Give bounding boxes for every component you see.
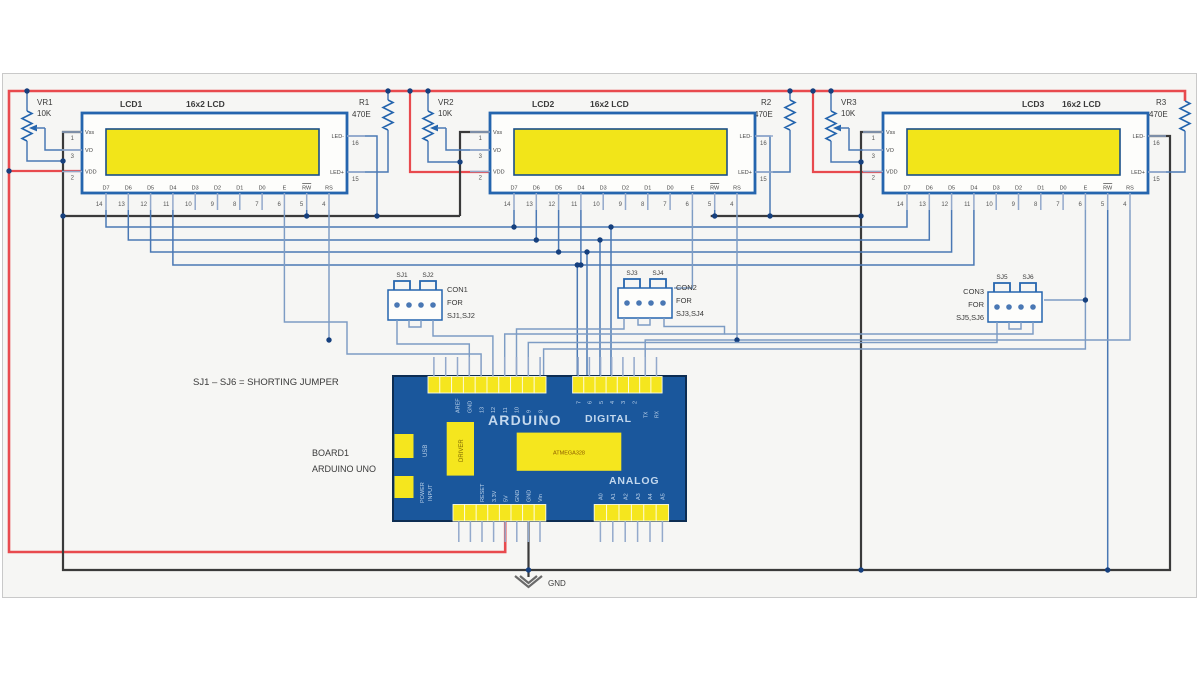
svg-text:D0: D0 [259, 186, 266, 192]
shorting jumper SJ5 [994, 283, 1010, 292]
svg-text:SJ3,SJ4: SJ3,SJ4 [676, 309, 704, 318]
svg-text:D7: D7 [102, 186, 109, 192]
junction LCD2 D4 [580, 210, 582, 265]
shorting jumper SJ1 [394, 281, 410, 290]
junction VR1 gnd [60, 158, 65, 163]
svg-text:470E: 470E [1149, 110, 1168, 119]
svg-text:SJ1: SJ1 [396, 272, 408, 279]
svg-text:11: 11 [964, 202, 971, 208]
svg-text:VR3: VR3 [841, 98, 857, 107]
svg-text:3.3V: 3.3V [492, 490, 498, 502]
svg-text:10K: 10K [37, 109, 52, 118]
svg-text:LCD2: LCD2 [532, 99, 554, 109]
wire CON3 pin1 to Arduino [528, 322, 997, 377]
junction LCD2 D7 [513, 210, 515, 227]
svg-text:SJ2: SJ2 [422, 272, 434, 279]
svg-text:RX: RX [655, 410, 661, 418]
wire bus D4 drop to Arduino digital pin [576, 265, 578, 377]
wire CON3 pin4 to bus [725, 322, 1034, 334]
potentiometer VR2 10K [427, 91, 429, 111]
wire GND main loop (LCD1 Vss drop, bottom bus, right riser to LCD3 LED-) [63, 132, 1170, 570]
svg-text:Vss: Vss [493, 130, 502, 136]
svg-text:12: 12 [548, 202, 555, 208]
svg-text:14: 14 [504, 202, 511, 208]
svg-text:16: 16 [352, 141, 359, 147]
CON1 pin 1 [394, 302, 400, 308]
svg-text:TX: TX [643, 411, 649, 418]
svg-text:9: 9 [527, 410, 533, 413]
potentiometer VR1 10K [26, 91, 28, 111]
svg-text:CON2: CON2 [676, 283, 697, 292]
svg-text:LED-: LED- [1132, 134, 1145, 140]
connector CON3 [988, 292, 1042, 322]
svg-text:Vin: Vin [538, 494, 544, 502]
header analog (bottom-right) [594, 505, 606, 522]
junction GND bus LCD3 riser [858, 567, 863, 572]
svg-text:VDD: VDD [886, 170, 898, 176]
svg-text:LED-: LED- [739, 134, 752, 140]
svg-text:13: 13 [919, 202, 926, 208]
svg-text:Vss: Vss [886, 130, 895, 136]
svg-text:R3: R3 [1156, 98, 1167, 107]
LCD module LCD3 16x2 [883, 113, 1148, 193]
svg-text:7: 7 [576, 401, 582, 404]
header top-right (digital 7-0) [573, 377, 584, 394]
svg-text:14: 14 [96, 202, 103, 208]
svg-text:FOR: FOR [447, 298, 463, 307]
wire CON2 pin1 to Arduino [517, 318, 625, 377]
shorting jumper SJ4 [650, 279, 666, 288]
svg-text:D4: D4 [577, 186, 584, 192]
svg-text:D1: D1 [236, 186, 243, 192]
svg-text:ARDUINO: ARDUINO [488, 412, 562, 428]
svg-text:D0: D0 [1060, 186, 1067, 192]
svg-text:E: E [691, 186, 695, 192]
svg-text:INPUT: INPUT [428, 484, 434, 501]
LCD3 right pins LED- LED+ [1148, 135, 1166, 137]
svg-text:2: 2 [632, 401, 638, 404]
board U1 Arduino Uno [393, 376, 686, 521]
LCD3 bottom pins D7-D0 E RW RS [906, 193, 908, 210]
wire GND riser LCD2 Vss [460, 132, 490, 216]
svg-text:470E: 470E [352, 110, 371, 119]
potentiometer VR3 10K [830, 91, 832, 111]
wire LCD1 E to Arduino [284, 210, 481, 377]
svg-text:8: 8 [538, 410, 544, 413]
svg-text:10: 10 [185, 202, 192, 208]
LCD1 left pins Vss VO VDD [62, 131, 82, 133]
svg-text:3: 3 [621, 401, 627, 404]
wire LCD2 RS drop [736, 210, 738, 340]
svg-text:SJ3: SJ3 [626, 270, 638, 277]
wire data bus D5 (LCD1-LCD2-LCD3) [151, 210, 952, 252]
wire R1 to LCD1 LED+ [346, 130, 388, 172]
svg-text:GND: GND [468, 401, 474, 413]
svg-text:10K: 10K [438, 109, 453, 118]
svg-text:RW: RW [710, 186, 720, 192]
junction LCD2 D6 [535, 210, 537, 240]
svg-text:A0: A0 [599, 493, 605, 500]
svg-text:LCD3: LCD3 [1022, 99, 1044, 109]
svg-text:A4: A4 [648, 493, 654, 500]
LCD module LCD2 16x2 [490, 113, 755, 193]
svg-text:12: 12 [941, 202, 948, 208]
wire +5V main (top rail, left drop, bottom run to Arduino 5V) [9, 91, 1185, 552]
svg-text:VDD: VDD [85, 170, 97, 176]
svg-text:D6: D6 [926, 186, 933, 192]
header top-left (AREF GND 13-8) [428, 377, 440, 394]
svg-text:6: 6 [588, 401, 594, 404]
svg-text:VR2: VR2 [438, 98, 454, 107]
svg-text:GND: GND [527, 490, 533, 502]
svg-text:ANALOG: ANALOG [609, 475, 659, 487]
svg-text:VO: VO [85, 148, 94, 154]
wire R3 to LCD3 LED+ [1145, 131, 1185, 172]
shorting jumper SJ3 [624, 279, 640, 288]
junction VR1 top [24, 88, 29, 93]
junction +5V LCD1 VDD [6, 168, 11, 173]
svg-text:4: 4 [610, 401, 616, 404]
power input connector [395, 476, 414, 498]
svg-text:E: E [283, 186, 287, 192]
svg-text:D1: D1 [644, 186, 651, 192]
wire LCD3 RW to GND bus [1107, 210, 1109, 570]
svg-text:SJ6: SJ6 [1022, 274, 1034, 281]
wire VR2 wiper to LCD2 VO [446, 128, 490, 150]
svg-text:CON1: CON1 [447, 285, 468, 294]
svg-text:LED-: LED- [331, 134, 344, 140]
wire GND riser LCD3 Vss [861, 132, 883, 570]
svg-text:BOARD1: BOARD1 [312, 448, 349, 458]
junction LED1- gnd [374, 213, 379, 218]
svg-text:D2: D2 [214, 186, 221, 192]
junction VR2 top [425, 88, 430, 93]
wire GND drop from Arduino GND pin [527, 521, 529, 577]
svg-text:SJ4: SJ4 [652, 270, 664, 277]
wire LCD1 RS drop [328, 210, 330, 340]
svg-text:15: 15 [352, 177, 359, 183]
pin stubs [434, 357, 663, 542]
LCD1 bottom pins D7-D0 E RW RS [105, 193, 107, 210]
svg-text:D3: D3 [192, 186, 199, 192]
svg-text:11: 11 [503, 407, 509, 413]
LCD3 screen [907, 129, 1120, 175]
svg-text:D2: D2 [622, 186, 629, 192]
connector CON2 [618, 288, 672, 318]
svg-text:ARDUINO UNO: ARDUINO UNO [312, 464, 376, 474]
wire LCD1 LED- to GND bus [346, 136, 377, 216]
svg-text:D4: D4 [169, 186, 176, 192]
shorting jumper SJ2 [420, 281, 436, 290]
CON1 pin 3 [418, 302, 424, 308]
svg-text:SJ1,SJ2: SJ1,SJ2 [447, 311, 475, 320]
wire GND bus under LCD1 [63, 215, 460, 217]
CON2 pin 1 [624, 300, 630, 306]
CON1 pin 2 [406, 302, 412, 308]
svg-text:11: 11 [163, 202, 170, 208]
wire LCD2 LED- to GND [752, 136, 770, 216]
svg-text:10: 10 [515, 407, 521, 413]
wire CON1 pin1 to Arduino [397, 320, 469, 377]
svg-text:POWER: POWER [420, 482, 426, 503]
svg-text:LED+: LED+ [738, 170, 752, 176]
wire CON2 pins2-3 bridge [638, 318, 650, 325]
svg-text:16: 16 [1153, 141, 1160, 147]
wire +5V branch to LCD2 VDD [410, 91, 490, 172]
CON2 pin 2 [636, 300, 642, 306]
LCD1 right pins LED- LED+ [347, 135, 365, 137]
svg-text:10: 10 [593, 202, 600, 208]
voltage regulator block [447, 422, 474, 476]
svg-text:A1: A1 [611, 493, 617, 500]
svg-text:DRIVER: DRIVER [459, 439, 465, 462]
wire R2 to LCD2 LED+ [752, 130, 790, 172]
wire data bus D6 (LCD1-LCD2-LCD3) [128, 210, 929, 240]
svg-text:VO: VO [886, 148, 895, 154]
wire VR2 bottom to GND [428, 141, 460, 162]
wire bus D6 drop to Arduino digital pin [599, 240, 601, 377]
svg-text:RS: RS [325, 186, 333, 192]
svg-text:13: 13 [479, 407, 485, 413]
LCD3 left pins Vss VO VDD [863, 131, 883, 133]
wire LCD2 E to CON2 [674, 210, 692, 288]
svg-text:10K: 10K [841, 109, 856, 118]
svg-text:16x2 LCD: 16x2 LCD [186, 99, 225, 109]
svg-text:VDD: VDD [493, 170, 505, 176]
CON2 pin 4 [660, 300, 666, 306]
resistor R2 470E [789, 91, 791, 100]
wire CON3 pins2-3 bridge [1009, 322, 1021, 329]
LCD2 screen [514, 129, 727, 175]
CON2 pin 3 [648, 300, 654, 306]
junction R2 top [787, 88, 792, 93]
svg-text:15: 15 [1153, 177, 1160, 183]
junction GND bus left [60, 213, 65, 218]
svg-text:VO: VO [493, 148, 502, 154]
svg-text:12: 12 [491, 407, 497, 413]
svg-text:A3: A3 [636, 493, 642, 500]
junction LED2- gnd [767, 213, 772, 218]
LCD2 right pins LED- LED+ [755, 135, 773, 137]
LCD module LCD1 16x2 [82, 113, 347, 193]
svg-text:10: 10 [986, 202, 993, 208]
wire GND segment LCD2/LCD3 [711, 215, 861, 217]
CON3 pin 3 [1018, 304, 1024, 310]
svg-text:D7: D7 [510, 186, 517, 192]
wire VR3 bottom to GND [831, 141, 861, 162]
wire bus D5 drop to Arduino digital pin [586, 252, 588, 377]
svg-text:SJ1 – SJ6 = SHORTING JUMPER: SJ1 – SJ6 = SHORTING JUMPER [193, 377, 339, 388]
svg-text:D6: D6 [125, 186, 132, 192]
junction VR2 gnd [457, 159, 462, 164]
svg-text:R1: R1 [359, 98, 370, 107]
svg-text:D0: D0 [667, 186, 674, 192]
junction +5V LCD2 drop [407, 88, 412, 93]
LCD1 screen [106, 129, 319, 175]
svg-text:FOR: FOR [676, 296, 692, 305]
CON3 pin 1 [994, 304, 1000, 310]
resistor R3 470E [1180, 101, 1190, 131]
svg-text:A5: A5 [661, 493, 667, 500]
svg-text:DIGITAL: DIGITAL [585, 413, 632, 425]
svg-text:16x2 LCD: 16x2 LCD [590, 99, 629, 109]
svg-text:SJ5: SJ5 [996, 274, 1008, 281]
svg-text:16: 16 [760, 141, 767, 147]
svg-text:CON3: CON3 [963, 287, 984, 296]
resistor R1 470E [387, 91, 389, 100]
svg-text:E: E [1084, 186, 1088, 192]
CON3 pin 4 [1030, 304, 1036, 310]
svg-text:GND: GND [515, 490, 521, 502]
svg-text:5V: 5V [503, 495, 509, 502]
svg-text:LCD1: LCD1 [120, 99, 142, 109]
svg-text:D2: D2 [1015, 186, 1022, 192]
svg-text:SJ5,SJ6: SJ5,SJ6 [956, 313, 984, 322]
svg-text:13: 13 [526, 202, 533, 208]
svg-text:470E: 470E [754, 110, 773, 119]
svg-text:RW: RW [302, 186, 312, 192]
svg-text:D5: D5 [147, 186, 154, 192]
svg-text:D6: D6 [533, 186, 540, 192]
wire CON1 pin4 to Arduino [433, 320, 493, 377]
ground symbol [515, 576, 542, 587]
svg-text:A2: A2 [623, 493, 629, 500]
svg-text:ATMEGA328: ATMEGA328 [553, 451, 585, 457]
junction VR3 gnd [858, 159, 863, 164]
IC ATMEGA328 [517, 433, 622, 471]
wire VR1 wiper to LCD1 VO [45, 128, 82, 150]
wire CON1 pins2-3 bridge [409, 320, 421, 327]
junction R1 top [385, 88, 390, 93]
junction GND seg LCD3 [858, 213, 863, 218]
svg-text:D3: D3 [600, 186, 607, 192]
wire LCD3 E to Arduino [544, 210, 1086, 377]
CON3 pin 2 [1006, 304, 1012, 310]
svg-text:14: 14 [897, 202, 904, 208]
svg-text:RESET: RESET [480, 483, 486, 502]
svg-text:LED+: LED+ [330, 170, 344, 176]
svg-text:15: 15 [760, 177, 767, 183]
svg-text:16x2 LCD: 16x2 LCD [1062, 99, 1101, 109]
svg-text:AREF: AREF [456, 398, 462, 413]
svg-text:D4: D4 [970, 186, 977, 192]
junction VR3 top [828, 88, 833, 93]
svg-text:Vss: Vss [85, 130, 94, 136]
svg-text:LED+: LED+ [1131, 170, 1145, 176]
shorting jumper SJ6 [1020, 283, 1036, 292]
svg-text:D7: D7 [903, 186, 910, 192]
wire VR1 bottom to GND [27, 141, 63, 161]
USB connector [395, 434, 414, 458]
svg-text:5: 5 [599, 401, 605, 404]
svg-text:12: 12 [140, 202, 147, 208]
wire LCD1 RW to GND bus [306, 210, 308, 216]
wire VR3 wiper to LCD3 VO [849, 128, 883, 150]
svg-text:VR1: VR1 [37, 98, 53, 107]
svg-text:D3: D3 [993, 186, 1000, 192]
header power (bottom-left) [453, 505, 465, 522]
schematic sheet frame [3, 74, 1197, 598]
CON1 pin 4 [430, 302, 436, 308]
wire data bus D7 (LCD1-LCD2-LCD3) [106, 210, 907, 227]
junction LCD2 D5 [558, 210, 560, 252]
svg-text:GND: GND [548, 579, 566, 588]
svg-text:RS: RS [1126, 186, 1134, 192]
svg-text:13: 13 [118, 202, 125, 208]
wire +5V branch to LCD3 VDD [813, 91, 883, 172]
wire LCD2 RW to GND bus [714, 210, 716, 216]
svg-text:D5: D5 [948, 186, 955, 192]
wire data bus D4 (LCD1-LCD2-LCD3) [173, 210, 974, 265]
LCD2 bottom pins D7-D0 E RW RS [513, 193, 515, 210]
wire LCD3 E branch to CON3 [1044, 299, 1085, 301]
connector CON1 [388, 290, 442, 320]
junction +5V LCD3 drop [810, 88, 815, 93]
svg-text:D5: D5 [555, 186, 562, 192]
junction GND symbol [526, 567, 531, 572]
svg-text:RS: RS [733, 186, 741, 192]
wire +5V branch to LCD1 VDD [9, 170, 82, 172]
svg-text:RW: RW [1103, 186, 1113, 192]
svg-text:FOR: FOR [968, 300, 984, 309]
wire bus D7 drop to Arduino digital pin [610, 227, 612, 377]
svg-text:11: 11 [571, 202, 578, 208]
wire RS common to Arduino [645, 210, 1130, 377]
svg-text:USB: USB [423, 445, 429, 457]
svg-text:D1: D1 [1037, 186, 1044, 192]
wire CON2 pin4 to Arduino [505, 318, 725, 377]
svg-text:R2: R2 [761, 98, 772, 107]
LCD2 left pins Vss VO VDD [470, 131, 490, 133]
